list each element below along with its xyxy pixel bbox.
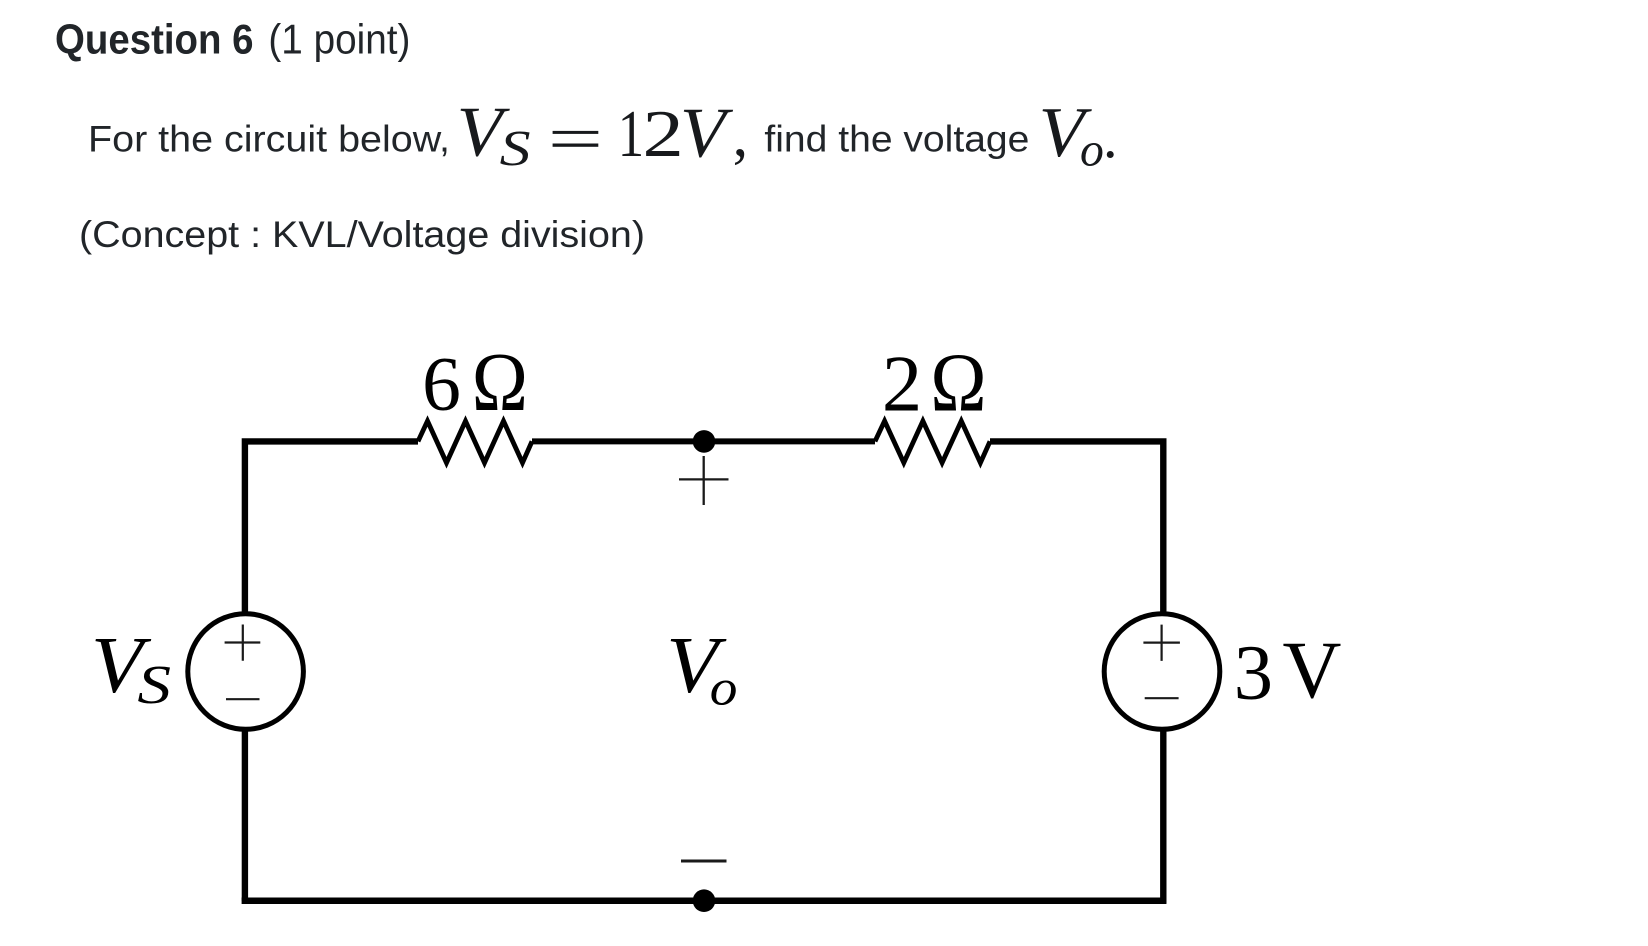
svg-text:1: 1	[618, 97, 644, 171]
svg-text:2: 2	[643, 97, 684, 171]
svg-text:3: 3	[1234, 629, 1273, 716]
plus mark inside Vs	[225, 625, 261, 661]
plus polarity mark of Vo	[679, 456, 729, 505]
minus mark inside 3V source	[1145, 697, 1179, 699]
svg-text:S: S	[500, 121, 531, 177]
math equals sign	[553, 131, 599, 134]
svg-text:o: o	[1080, 124, 1104, 177]
wire left vertical lower segment	[242, 728, 248, 901]
svg-text:Question 6: Question 6	[55, 15, 254, 62]
svg-text:For the circuit below,: For the circuit below,	[88, 119, 450, 160]
node A top output node dot	[693, 430, 716, 453]
svg-text:find the voltage: find the voltage	[764, 119, 1029, 160]
svg-text:V: V	[1283, 625, 1342, 716]
svg-text:,: ,	[733, 102, 749, 170]
voltage source 3V circle	[1104, 614, 1220, 730]
svg-text:Ω: Ω	[930, 337, 986, 430]
wire top-left with left vertical upper segment	[245, 441, 418, 614]
wire top-right with right vertical upper segment	[990, 441, 1163, 614]
svg-text:.: .	[1103, 104, 1118, 170]
wire right vertical lower segment	[1160, 729, 1166, 904]
svg-text:6: 6	[422, 341, 461, 427]
svg-text:(1 point): (1 point)	[268, 15, 410, 62]
svg-text:2: 2	[882, 340, 922, 429]
wire bottom	[242, 897, 1167, 904]
node B bottom node dot	[693, 889, 716, 912]
svg-text:V: V	[680, 93, 733, 172]
resistor R1 6 ohm zigzag	[418, 421, 532, 463]
svg-text:(Concept : KVL/Voltage divisio: (Concept : KVL/Voltage division)	[79, 214, 645, 255]
wire top-middle segment	[532, 438, 875, 444]
minus polarity mark of Vo	[681, 860, 727, 863]
voltage source Vs circle	[188, 614, 304, 730]
svg-text:S: S	[137, 654, 171, 715]
resistor R2 2 ohm zigzag	[875, 421, 990, 463]
svg-text:o: o	[710, 661, 738, 716]
svg-text:Ω: Ω	[472, 337, 528, 430]
minus mark inside Vs	[226, 698, 260, 700]
plus mark inside 3V source	[1143, 625, 1180, 661]
